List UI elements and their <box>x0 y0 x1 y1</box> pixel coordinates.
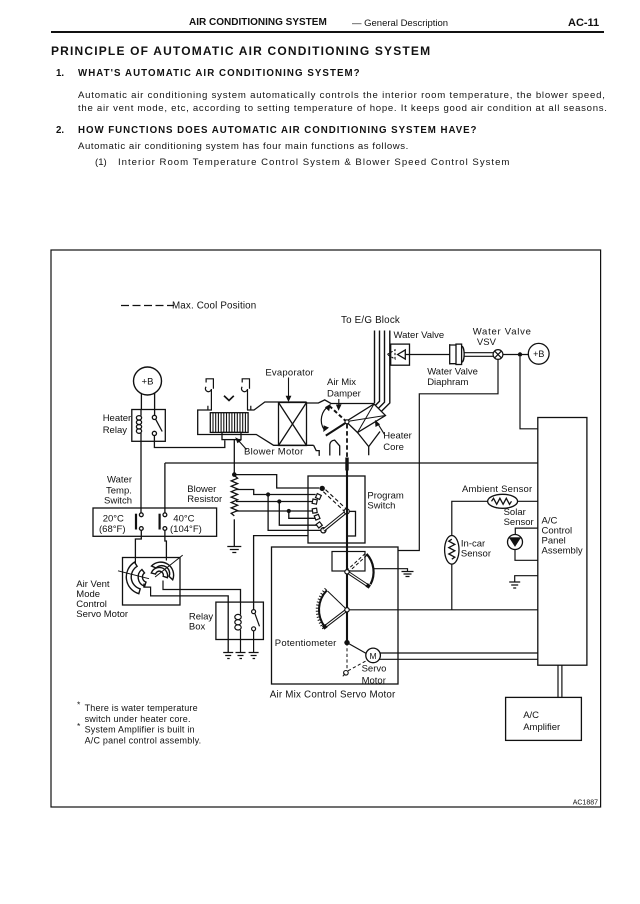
svg-text:(68°F): (68°F) <box>99 524 126 535</box>
svg-text:Air Mix Control Servo Motor: Air Mix Control Servo Motor <box>270 690 396 701</box>
wire relay coil to water temp switch <box>140 441 142 513</box>
relay box <box>216 602 264 639</box>
svg-text:Amplifier: Amplifier <box>523 722 560 733</box>
wire ambient to in-car sensor <box>452 501 488 535</box>
svg-text:Evaporator: Evaporator <box>265 368 313 379</box>
svg-text:Damper: Damper <box>327 389 361 400</box>
svg-text:*: * <box>77 700 81 710</box>
header <box>189 17 327 28</box>
vent damper arcs left <box>126 562 146 594</box>
svg-text:Max. Cool Position: Max. Cool Position <box>172 301 256 312</box>
ground right of air mix box <box>402 572 414 577</box>
svg-text:switch under heater core.: switch under heater core. <box>85 714 191 724</box>
svg-text:Sensor: Sensor <box>504 517 534 528</box>
link rod to servo motor <box>347 643 367 654</box>
dashed link and idler <box>346 643 348 671</box>
wire potentiometer to panel <box>349 609 538 611</box>
pointer heater core <box>377 423 384 435</box>
diagram frame <box>51 250 601 807</box>
svg-text:Servo: Servo <box>362 663 387 674</box>
blower resistor R1 <box>231 476 237 547</box>
wires servo motor to panel <box>379 653 538 659</box>
wire 20C contact down to vent servo <box>135 530 141 557</box>
wire resistor tap1 to program contact 2 <box>236 490 316 495</box>
heater relay U1 <box>132 410 166 442</box>
svg-text:Heater: Heater <box>103 413 132 424</box>
svg-text:+B: +B <box>142 377 154 388</box>
water temp switch S1 <box>93 508 217 536</box>
wire +B to heater relay <box>141 393 154 415</box>
potentiometer dashed lever <box>326 590 348 611</box>
program contact 5 <box>314 514 320 520</box>
program wiper solid to contact 7 <box>323 511 346 530</box>
svg-text:Air Mix: Air Mix <box>327 377 356 388</box>
duct outlet B <box>330 440 340 455</box>
svg-text:M: M <box>370 651 377 661</box>
air mix control servo motor box <box>272 547 399 684</box>
svg-text:40°C: 40°C <box>173 514 194 525</box>
damper pivot <box>345 420 349 424</box>
wire program switch to relay box <box>254 536 308 610</box>
relay contact <box>252 610 260 652</box>
svg-text:Blower Motor: Blower Motor <box>244 446 304 457</box>
wire tap3 branch to program contact 5 <box>289 511 315 518</box>
wires panel to amplifier <box>558 665 562 697</box>
air vent mode control servo motor box <box>123 558 181 606</box>
wire 40C contact to long bus <box>164 463 166 513</box>
wire junction to control panel <box>520 357 538 429</box>
heater core <box>346 404 386 433</box>
potentiometer pivot <box>345 608 349 612</box>
svg-text:Core: Core <box>383 442 404 453</box>
check mark between brackets <box>224 396 234 401</box>
svg-text:+B: +B <box>533 349 544 359</box>
svg-text:Motor: Motor <box>362 676 386 687</box>
wire resistor top to program contact 1 <box>234 475 319 488</box>
program switch S2 <box>308 476 365 543</box>
servo motor M <box>366 648 381 663</box>
mounting bracket left <box>205 379 213 410</box>
svg-text:Water Valve: Water Valve <box>394 330 445 341</box>
svg-text:Switch: Switch <box>367 500 395 511</box>
wire blower motor to resistor <box>233 440 235 475</box>
svg-text:There is water temperature: There is water temperature <box>85 703 198 713</box>
wires inside vent servo <box>135 558 180 596</box>
program contact 6 <box>316 522 322 528</box>
water valve diaphragm <box>450 344 464 364</box>
svg-text:System Amplifier is built in: System Amplifier is built in <box>85 725 195 735</box>
wire in-car to potentiometer bus <box>451 564 453 610</box>
program contact 1 <box>320 486 325 491</box>
svg-text:(104°F): (104°F) <box>170 524 202 535</box>
svg-text:Relay: Relay <box>103 425 128 436</box>
wire ambient to panel <box>518 500 538 502</box>
upper damper fan arc <box>367 554 374 584</box>
pipe diaphragm to VSV <box>464 353 493 357</box>
program wiper dashed to contact 1 <box>321 488 348 513</box>
title <box>51 44 431 58</box>
section 2 <box>56 125 64 136</box>
node junction at +B branch <box>518 352 522 356</box>
ground below resistor <box>227 547 241 553</box>
wire vent servo through relay box to ground <box>180 596 228 652</box>
program contact 7 <box>321 528 326 533</box>
upper fan dashed lever <box>346 553 367 573</box>
wire vent servo to relay coil <box>180 590 241 603</box>
section 1 <box>56 68 64 79</box>
program contact 4 <box>312 508 317 513</box>
svg-text:Water Valve: Water Valve <box>473 326 532 337</box>
svg-text:Sensor: Sensor <box>461 549 491 560</box>
A/C amplifier <box>506 697 582 740</box>
potentiometer toothed arc <box>319 590 327 626</box>
battery +B (left) <box>134 367 162 395</box>
svg-text:A/C: A/C <box>523 710 539 721</box>
svg-text:Diaphram: Diaphram <box>427 377 468 388</box>
svg-text:Ambient Sensor: Ambient Sensor <box>462 484 532 495</box>
evaporator <box>279 403 307 446</box>
air mix control rod (dashed above) <box>346 424 348 458</box>
water valve VSV <box>493 350 503 360</box>
node tap3 branch <box>287 509 291 513</box>
air mix damper (dashed = max cool) <box>329 406 345 421</box>
air mix control rod thick segment <box>345 458 348 471</box>
pointer air mix damper <box>338 399 340 407</box>
link rectangle <box>332 552 365 572</box>
blower motor M1 <box>210 413 248 440</box>
duct outlet under heater core <box>358 432 381 456</box>
battery +B (right) <box>528 343 549 364</box>
wire tap1 branch to program contact 7 <box>268 495 321 531</box>
A/C control panel assembly <box>538 418 587 666</box>
node rod bottom <box>344 640 349 645</box>
wire 40C contact down to vent servo <box>165 530 167 557</box>
upper fan pivot <box>345 570 349 574</box>
node tap1 branch <box>266 492 270 496</box>
node resistor top junction <box>232 472 237 477</box>
vent damper arcs right <box>151 562 173 580</box>
svg-text:Resistor: Resistor <box>187 494 222 505</box>
svg-text:Switch: Switch <box>104 496 132 507</box>
svg-text:Assembly: Assembly <box>542 545 583 556</box>
ground below relay box (x3) <box>223 653 258 659</box>
svg-text:Potentiometer: Potentiometer <box>275 638 337 649</box>
vent damper lever right <box>155 555 183 577</box>
wire resistor tap3 to program contact 4 <box>236 510 313 512</box>
svg-text:AC1887: AC1887 <box>573 800 598 807</box>
in-car sensor <box>445 536 459 565</box>
wire resistor tap2 to program contact 3 <box>236 501 313 503</box>
water pipes to E/G block <box>375 331 390 412</box>
svg-text:Water Valve: Water Valve <box>427 366 478 377</box>
duct outline around blower and evaporator <box>198 400 374 456</box>
svg-text:A/C panel control assembly.: A/C panel control assembly. <box>85 735 202 745</box>
svg-text:To E/G Block: To E/G Block <box>341 315 400 326</box>
program wiper pivot <box>344 509 349 514</box>
wire tap2 branch to program contact 6 <box>279 502 317 526</box>
program contact 2 <box>315 494 321 500</box>
ambient sensor <box>488 494 518 508</box>
long bus wire to control panel <box>165 462 538 464</box>
wire VSV down to air mix servo <box>398 359 498 550</box>
svg-text:*: * <box>77 721 81 731</box>
wire water valve to diaphragm <box>406 354 450 356</box>
panel ground <box>515 576 538 582</box>
svg-text:Servo Motor: Servo Motor <box>76 609 128 620</box>
svg-text:VSV: VSV <box>477 337 497 348</box>
svg-text:Heater: Heater <box>383 431 412 442</box>
program contact 3 <box>312 499 317 504</box>
wire VSV to +B <box>503 354 529 356</box>
pointer evaporator <box>288 378 290 398</box>
water valve <box>387 344 409 365</box>
wire relay contact to blower motor <box>154 436 224 448</box>
vent damper lever left <box>118 571 149 579</box>
mounting bracket right <box>242 379 251 410</box>
pointer blower motor <box>238 440 246 449</box>
air mix control rod <box>346 471 348 643</box>
potentiometer solid lever <box>325 610 347 627</box>
node tap2 branch <box>277 499 281 503</box>
relay coil <box>235 602 241 652</box>
wire fan to ground <box>373 569 408 571</box>
upper fan solid lever <box>347 572 368 586</box>
svg-text:Water: Water <box>107 475 132 486</box>
svg-text:20°C: 20°C <box>103 514 124 525</box>
damper swing arc <box>321 406 329 430</box>
legend max cool position <box>121 305 174 307</box>
air mix damper (solid) <box>326 422 347 436</box>
svg-text:Box: Box <box>189 622 206 633</box>
